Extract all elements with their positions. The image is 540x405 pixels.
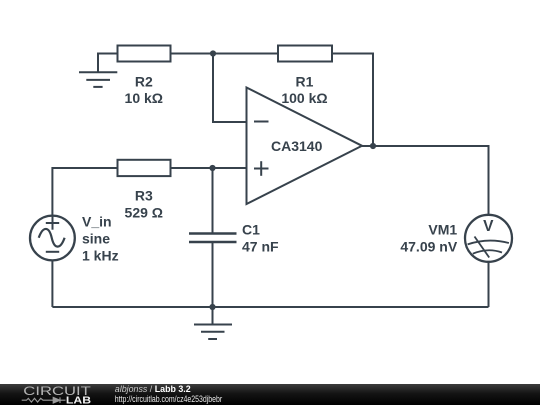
op-amp plus sign <box>254 161 269 176</box>
wire node A to inverting input <box>213 54 247 123</box>
wire voltmeter to bottom rail <box>488 262 490 307</box>
svg-text:V: V <box>483 218 494 235</box>
resistor R2 <box>118 46 171 62</box>
voltmeter needle <box>475 237 490 258</box>
node C junction dot <box>209 304 215 310</box>
resistor R1 <box>278 46 332 62</box>
ground GND1 <box>79 72 117 87</box>
wire node C to ground <box>212 307 214 325</box>
wire node A to R1 <box>213 53 278 55</box>
svg-text:V_in: V_in <box>82 214 112 230</box>
svg-text:albjonss / Labb 3.2: albjonss / Labb 3.2 <box>115 384 191 394</box>
V_in plus sign <box>46 217 59 230</box>
node A junction dot <box>210 50 216 56</box>
svg-text:http://circuitlab.com/cz4e253d: http://circuitlab.com/cz4e253djbebr <box>115 394 222 404</box>
svg-text:100 kΩ: 100 kΩ <box>281 90 327 106</box>
svg-text:R2: R2 <box>135 73 153 89</box>
wire ground to R2 <box>98 54 118 73</box>
V_in minus sign <box>46 251 59 253</box>
svg-text:529 Ω: 529 Ω <box>125 204 163 220</box>
svg-text:sine: sine <box>82 231 110 247</box>
wire R3 to node D and plus input <box>171 167 247 169</box>
wire R1 to output node B <box>332 54 373 147</box>
wire node D to C1 <box>212 168 214 234</box>
svg-text:VM1: VM1 <box>428 221 457 237</box>
wire output to voltmeter <box>362 146 489 215</box>
resistor R3 <box>118 160 171 176</box>
svg-text:47.09 nV: 47.09 nV <box>400 239 457 255</box>
wire V_in top to R3 <box>52 168 117 216</box>
node D junction dot <box>209 165 215 171</box>
footer bar <box>0 384 540 405</box>
svg-text:R1: R1 <box>296 73 314 89</box>
svg-text:47 nF: 47 nF <box>242 239 279 255</box>
op-amp minus sign <box>254 121 269 123</box>
svg-text:R3: R3 <box>135 187 153 203</box>
svg-text:10 kΩ: 10 kΩ <box>125 90 163 106</box>
voltmeter VM1 circle <box>465 215 512 262</box>
op-amp U1 triangle <box>247 88 363 205</box>
voltage source V_in circle <box>30 216 75 261</box>
wire V_in bottom to rail <box>51 260 53 307</box>
svg-text:CA3140: CA3140 <box>271 138 323 154</box>
node B junction dot <box>370 143 376 149</box>
svg-text:LAB: LAB <box>66 395 91 405</box>
bottom rail wire <box>52 306 488 308</box>
V_in sine wave <box>39 229 65 247</box>
wire C1 to bottom rail <box>212 242 214 307</box>
capacitor C1 plates <box>189 234 237 243</box>
wire R2 to node A <box>171 53 214 55</box>
svg-text:C1: C1 <box>242 221 260 237</box>
voltmeter meter arcs <box>468 241 509 254</box>
svg-text:1 kHz: 1 kHz <box>82 248 119 264</box>
ground GND2 <box>194 325 232 340</box>
logo resistor-diode squiggle <box>22 397 66 403</box>
